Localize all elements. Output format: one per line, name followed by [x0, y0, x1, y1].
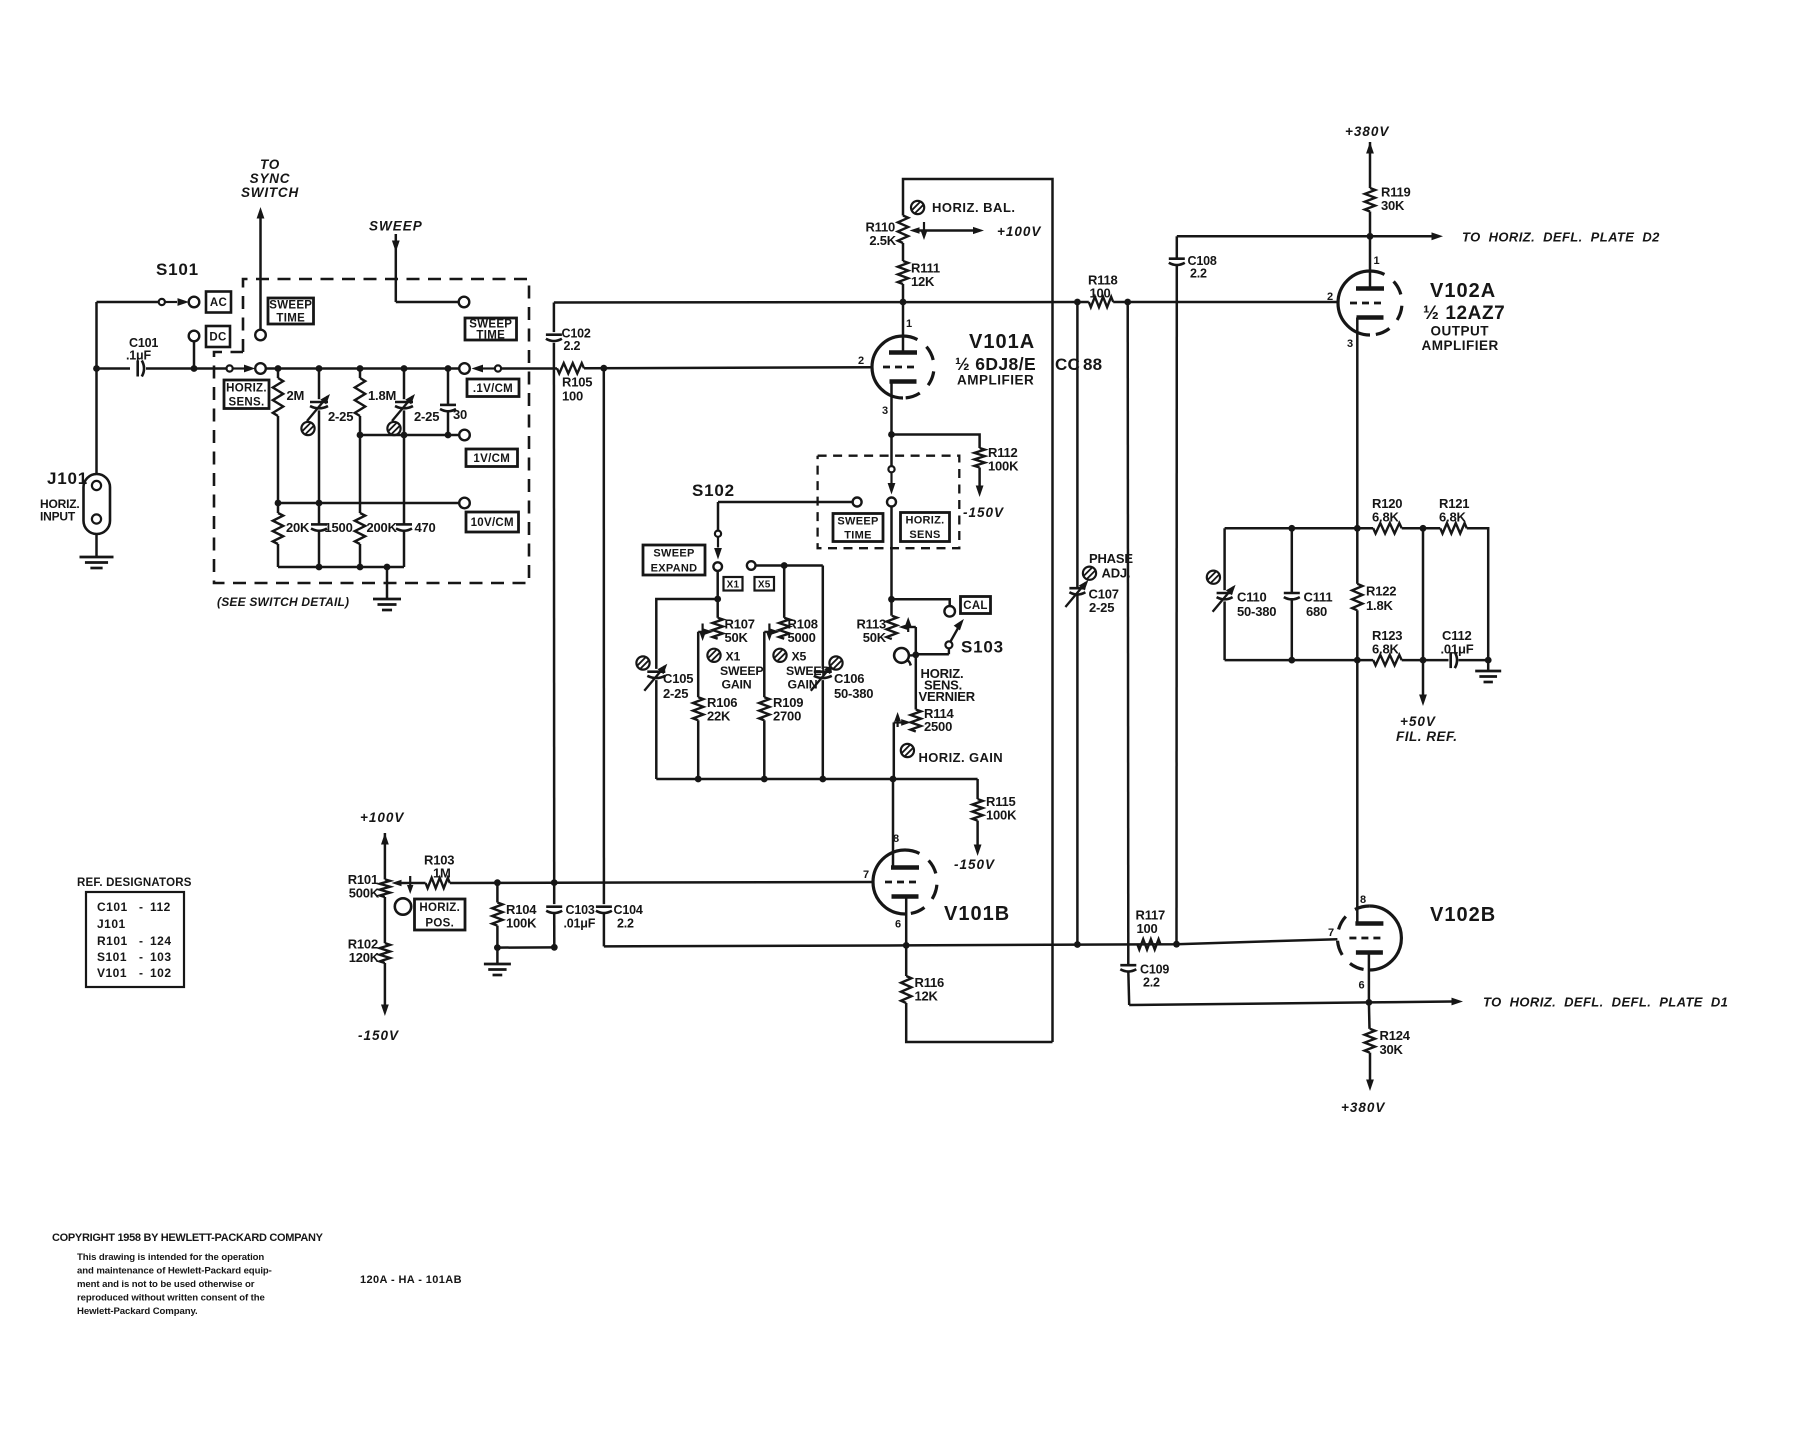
switch contact X5 [747, 561, 823, 570]
text copyright notice [52, 1232, 324, 1317]
wire V102A plate lead [1370, 236, 1380, 288]
svg-text:X5: X5 [792, 650, 807, 664]
potentiometer R110 2.5K [865, 216, 908, 249]
text drawing number [360, 1274, 462, 1286]
wire to R112 [892, 435, 980, 449]
svg-text:+100V: +100V [997, 224, 1041, 239]
wire X1 branch left [656, 599, 717, 669]
svg-text:100K: 100K [506, 916, 537, 931]
svg-text:S101: S101 [156, 260, 199, 279]
label X5 box [755, 577, 775, 591]
wire V101B cathode lead [903, 897, 910, 949]
svg-text:2M: 2M [287, 388, 305, 403]
wire +50V branch [1419, 528, 1427, 706]
label V102A function [1422, 324, 1499, 354]
svg-text:TO: TO [260, 157, 280, 172]
svg-text:C104: C104 [614, 903, 643, 917]
svg-text:SWITCH: SWITCH [241, 185, 299, 200]
adjust screw HORIZ. GAIN [901, 744, 1003, 765]
svg-text:8: 8 [1360, 894, 1366, 906]
wiper R107 [698, 624, 713, 698]
svg-text:HORIZ. BAL.: HORIZ. BAL. [932, 200, 1016, 215]
wire C112 to corner [1459, 657, 1492, 664]
feedback loop wire top [903, 179, 1053, 1042]
svg-text:R124: R124 [1380, 1028, 1411, 1043]
svg-text:120K: 120K [349, 950, 380, 965]
node TO HORIZ. DEFL. PLATE D2 [1177, 230, 1660, 245]
resistor R119 30K [1365, 185, 1411, 214]
label V101B [944, 903, 1010, 925]
adjust screw first trimmer [301, 422, 314, 435]
svg-text:.1V/CM: .1V/CM [473, 383, 513, 395]
svg-text:½ 6DJ8/E: ½ 6DJ8/E [955, 354, 1036, 374]
switch S102 middle wafer [887, 435, 896, 600]
svg-text:AMPLIFIER: AMPLIFIER [957, 373, 1034, 388]
wire network top right corner [1467, 528, 1488, 660]
svg-text:V102B: V102B [1430, 904, 1496, 926]
svg-text:SENS.: SENS. [228, 397, 264, 409]
wiper R113 [899, 617, 916, 654]
svg-text:CAL: CAL [963, 600, 988, 612]
svg-text:REF. DESIGNATORS: REF. DESIGNATORS [77, 877, 192, 889]
svg-text:2-25: 2-25 [1089, 600, 1114, 615]
svg-text:10V/CM: 10V/CM [471, 517, 514, 529]
svg-text:VERNIER: VERNIER [919, 689, 976, 704]
svg-text:SWEEP: SWEEP [269, 300, 312, 312]
wire network bottom left [1225, 657, 1374, 664]
svg-text:30K: 30K [1381, 198, 1405, 213]
tube V101B [863, 833, 937, 931]
svg-text:POS.: POS. [425, 917, 454, 929]
resistor 20K [273, 503, 310, 567]
adjust screw C106 [829, 656, 842, 669]
potentiometer R101 500K [348, 872, 390, 901]
resistor R104 100K [492, 883, 537, 951]
wire R119 to plate node [1367, 212, 1374, 240]
svg-text:470: 470 [415, 520, 436, 535]
svg-text:-150V: -150V [358, 1028, 399, 1043]
svg-text:124: 124 [150, 934, 172, 948]
label HORIZ. SENS box wafer [901, 513, 950, 542]
svg-text:3: 3 [882, 405, 888, 417]
wire V102B cathode lead [1366, 953, 1373, 1006]
node TO HORIZ. DEFL. DEFL. PLATE D1 [1129, 995, 1728, 1010]
resistor R117 100 [1136, 908, 1166, 950]
svg-text:8: 8 [893, 833, 899, 845]
svg-text:HORIZ.: HORIZ. [226, 382, 267, 394]
wiper R114 [894, 712, 911, 779]
svg-text:2.2: 2.2 [1143, 976, 1160, 990]
wire R101 to R102 [384, 897, 387, 943]
wire R115 to -150V [974, 821, 982, 856]
svg-text:-: - [139, 900, 143, 914]
svg-text:6.8K: 6.8K [1372, 510, 1399, 525]
adjust screw PHASE ADJ. [1083, 551, 1133, 581]
wire S102 label leg [717, 502, 720, 531]
svg-text:1M: 1M [433, 866, 451, 881]
svg-text:100: 100 [1137, 921, 1158, 936]
wire DC contact stem [191, 342, 198, 372]
wiper R110 to +100V [910, 222, 1042, 240]
label SWEEP TIME box right [465, 318, 517, 342]
switch S102 sweep-time contact left [255, 330, 266, 341]
label AC box [206, 292, 231, 313]
svg-text:C110: C110 [1237, 590, 1267, 605]
svg-text:1.8K: 1.8K [1366, 598, 1393, 613]
svg-text:HORIZ.: HORIZ. [419, 902, 460, 914]
trimmer capacitor C110 50-380 [1213, 585, 1277, 660]
svg-text:-150V: -150V [954, 857, 995, 872]
svg-text:2.2: 2.2 [564, 339, 581, 353]
svg-text:20K: 20K [286, 520, 310, 535]
wire V102B plate lead [1357, 660, 1366, 923]
svg-text:½ 12AZ7: ½ 12AZ7 [1423, 303, 1505, 324]
svg-text:ment and is not to be used oth: ment and is not to be used otherwise or [77, 1279, 255, 1290]
svg-text:-: - [139, 934, 143, 948]
svg-text:100K: 100K [988, 459, 1019, 474]
svg-text:C106: C106 [834, 671, 864, 686]
svg-text:TIME: TIME [276, 313, 305, 325]
table REF. DESIGNATORS [77, 877, 192, 987]
label X1 box [724, 577, 743, 591]
wire attenuator ground bus [278, 564, 404, 571]
label (SEE SWITCH DETAIL) [217, 595, 349, 609]
wire plate bus [554, 299, 1089, 306]
svg-text:INPUT: INPUT [40, 510, 76, 524]
adjust screw C105 [636, 656, 649, 669]
svg-text:2.2: 2.2 [617, 917, 634, 931]
svg-text:C105: C105 [663, 671, 693, 686]
wire +380V to R119 [1366, 142, 1374, 188]
svg-text:7: 7 [1328, 927, 1334, 939]
label SWEEP TIME box left [268, 298, 314, 325]
switch S103 arm [945, 619, 964, 654]
resistor R116 12K [901, 945, 944, 1003]
resistor 200K [355, 435, 398, 567]
svg-text:680: 680 [1306, 604, 1327, 619]
svg-text:-: - [139, 950, 143, 964]
switch S102 input wafer pole [227, 363, 266, 374]
svg-text:1.8M: 1.8M [368, 388, 396, 403]
node -150V below R112 [963, 505, 1004, 520]
svg-text:12K: 12K [911, 274, 935, 289]
wire network top left [1225, 525, 1374, 532]
label CAL box [961, 597, 991, 614]
capacitor C102 2.2 [546, 327, 591, 354]
knob HORIZ. POS. [395, 898, 411, 914]
svg-text:DC: DC [209, 332, 226, 344]
svg-text:.01μF: .01μF [564, 917, 596, 931]
adjust screw C110 [1207, 571, 1220, 584]
node -150V below R102 [358, 1028, 399, 1043]
svg-text:X5: X5 [758, 579, 771, 590]
wire C102 vertical top [553, 303, 556, 333]
resistor R105 100 [557, 363, 592, 403]
svg-text:5000: 5000 [788, 630, 816, 645]
wire R102 to -150V [381, 963, 389, 1016]
tube V102A [1327, 271, 1402, 350]
svg-text:1V/CM: 1V/CM [473, 453, 510, 465]
svg-text:C101: C101 [97, 900, 128, 914]
wire cathode bus [551, 939, 1338, 950]
svg-text:3: 3 [1347, 338, 1353, 350]
capacitor C101 .1uF [126, 336, 158, 377]
wire R115 branch [976, 779, 979, 799]
svg-text:102: 102 [150, 966, 172, 980]
svg-text:R105: R105 [562, 375, 592, 390]
svg-text:C103: C103 [566, 903, 595, 917]
label V102A type [1423, 303, 1505, 324]
svg-text:22K: 22K [707, 709, 731, 724]
switch contact 10V/CM [459, 498, 470, 509]
label DC box [206, 326, 230, 347]
wire sweep-time pole to R105 [501, 367, 557, 370]
wire sweep gain bottom bus [656, 776, 977, 783]
resistor R109 2700 [759, 695, 803, 779]
wire J101 to ground [95, 534, 98, 557]
resistor R121 6.8K [1439, 496, 1469, 534]
svg-text:.01μF: .01μF [1441, 642, 1474, 657]
ground attenuator [373, 599, 401, 610]
wire main input left [93, 365, 130, 372]
label V102B [1430, 904, 1496, 926]
svg-text:(SEE SWITCH DETAIL): (SEE SWITCH DETAIL) [217, 595, 349, 609]
wire R104 ground stem [496, 948, 499, 964]
svg-text:200K: 200K [367, 520, 398, 535]
wire R107 top [716, 599, 719, 618]
label S103 [961, 638, 1004, 657]
svg-text:100: 100 [1090, 286, 1111, 301]
svg-text:6.8K: 6.8K [1439, 510, 1466, 525]
resistor R111 12K [898, 261, 940, 290]
label V102A [1430, 280, 1496, 302]
wire R123 to C112 [1402, 657, 1449, 664]
label S102 [692, 481, 735, 500]
label V101A [969, 331, 1035, 353]
capacitor 30 [440, 369, 467, 436]
node +380V bottom [1341, 1100, 1385, 1115]
adjust screw X1 SWEEP GAIN [707, 649, 763, 692]
label 1V/CM box [466, 449, 518, 467]
svg-text:R101: R101 [97, 934, 128, 948]
switch S102 sweep-expand wafer [713, 531, 722, 603]
svg-text:SYNC: SYNC [250, 171, 291, 186]
svg-text:TO HORIZ. DEFL. DEFL. PLATE D1: TO HORIZ. DEFL. DEFL. PLATE D1 [1483, 995, 1728, 1010]
wire R120 to R121 [1402, 525, 1441, 532]
svg-text:SWEEP: SWEEP [720, 664, 763, 678]
adjust screw X5 SWEEP GAIN [773, 649, 829, 692]
label HORIZ. SENS. box [224, 380, 269, 409]
wire C107 vertical [1076, 302, 1079, 945]
wire to S101 AC arm [97, 301, 159, 304]
wire C108 vertical [1175, 236, 1178, 944]
svg-text:50K: 50K [725, 630, 749, 645]
jack J101 HORIZ. INPUT [40, 469, 110, 534]
potentiometer R107 50K [713, 617, 755, 646]
svg-text:+50V: +50V [1400, 714, 1436, 729]
wire C103 bottom [497, 912, 554, 947]
switch S102 sweep contact right [459, 297, 470, 308]
wiper R101 [392, 876, 426, 894]
ground below R104 [484, 964, 511, 975]
node SWEEP input [369, 219, 458, 303]
switch contact 1V/CM [459, 430, 470, 441]
svg-text:6.8K: 6.8K [1372, 642, 1399, 657]
label 10V/CM box [466, 512, 519, 532]
node +100V above R101 [360, 810, 404, 825]
switch S101 [156, 260, 199, 341]
resistor R123 6.8K [1372, 628, 1402, 665]
wire vernier node [909, 651, 949, 658]
resistor R120 6.8K [1372, 496, 1402, 534]
svg-text:2-25: 2-25 [663, 686, 688, 701]
wire +100V to R101 [381, 833, 389, 879]
svg-text:-150V: -150V [963, 505, 1004, 520]
svg-text:SWEEP: SWEEP [837, 515, 878, 527]
svg-text:1: 1 [906, 318, 912, 330]
svg-text:V101: V101 [97, 966, 127, 980]
wire R113 top node [888, 596, 895, 616]
wire R111 to bus [902, 284, 905, 302]
node attenuator top bus [266, 365, 459, 372]
potentiometer R113 50K [856, 616, 897, 645]
wire V101B plate lead [892, 779, 895, 868]
wire input vertical [95, 302, 98, 474]
resistor R124 30K [1365, 1002, 1411, 1057]
ground below J101 [80, 557, 114, 568]
label HORIZ. POS. box [415, 899, 466, 930]
svg-text:1: 1 [1374, 255, 1380, 267]
resistor R106 22K [693, 695, 737, 779]
label .1V/CM box [467, 379, 519, 397]
wire ground stem [386, 567, 389, 599]
svg-text:2: 2 [1327, 291, 1333, 303]
wire R105 to V101A grid [584, 365, 872, 372]
svg-text:500K: 500K [349, 886, 380, 901]
svg-text:C109: C109 [1140, 963, 1169, 977]
ground below C112 [1475, 660, 1501, 682]
tube V101A [858, 336, 934, 417]
svg-text:112: 112 [150, 900, 171, 914]
wire X5 branch [783, 566, 786, 618]
trimmer capacitor 2-25 second [392, 369, 439, 436]
wire V102A cathode lead [1354, 318, 1361, 532]
adjust screw second trimmer [387, 422, 400, 435]
svg-text:TO HORIZ. DEFL. PLATE D2: TO HORIZ. DEFL. PLATE D2 [1462, 230, 1660, 245]
wire C101 to wafer pole [146, 367, 227, 370]
svg-text:HORIZ. GAIN: HORIZ. GAIN [919, 750, 1004, 765]
svg-text:This drawing is intended for t: This drawing is intended for the operati… [77, 1252, 264, 1263]
wire R103 to V101B grid [450, 879, 873, 886]
svg-text:C111: C111 [1304, 590, 1333, 605]
svg-text:100: 100 [562, 389, 583, 404]
label SWEEP EXPAND box [643, 545, 705, 575]
wire C109 vertical [1128, 302, 1130, 1005]
node -150V below R115 [954, 857, 995, 872]
svg-text:V101A: V101A [969, 331, 1035, 353]
svg-text:2: 2 [858, 355, 864, 367]
capacitor C111 680 [1284, 528, 1333, 660]
capacitor 1500 [311, 503, 353, 567]
switch S102 wafer left contact [718, 498, 862, 507]
wire R118 to V102A grid [1113, 299, 1338, 306]
wire R124 to +380V [1366, 1053, 1374, 1091]
svg-text:PHASE: PHASE [1089, 551, 1133, 566]
svg-text:Hewlett-Packard Company.: Hewlett-Packard Company. [77, 1306, 198, 1317]
potentiometer R108 5000 [779, 617, 818, 646]
svg-text:ADJ.: ADJ. [1102, 566, 1131, 581]
wire R116 to loop bottom [906, 1003, 1052, 1042]
svg-text:S101: S101 [97, 950, 127, 964]
wire 10V/CM node [275, 500, 460, 507]
svg-text:V101B: V101B [944, 903, 1010, 925]
node TO SYNC SWITCH [241, 157, 299, 330]
potentiometer R114 2500 [911, 706, 955, 734]
trimmer capacitor 2-25 first [307, 369, 353, 504]
svg-text:100K: 100K [986, 808, 1017, 823]
wire R112 to -150V [976, 468, 984, 498]
svg-text:12K: 12K [915, 989, 939, 1004]
wire R114 top [915, 655, 918, 710]
resistor R115 100K [972, 794, 1017, 823]
svg-text:V102A: V102A [1430, 280, 1496, 302]
trimmer capacitor C105 2-25 [644, 664, 693, 779]
svg-text:2-25: 2-25 [414, 409, 439, 424]
capacitor C108 2.2 [1169, 254, 1217, 281]
svg-text:88: 88 [1083, 355, 1102, 374]
label SWEEP TIME box wafer [833, 514, 883, 542]
resistor R102 120K [348, 937, 390, 966]
svg-text:+380V: +380V [1345, 124, 1389, 139]
svg-text:-: - [139, 966, 143, 980]
resistor R122 1.8K [1352, 528, 1396, 660]
svg-text:and maintenance of Hewlett-Pac: and maintenance of Hewlett-Packard equip… [77, 1266, 272, 1277]
svg-text:1500: 1500 [325, 520, 353, 535]
capacitor 470 [396, 435, 436, 567]
svg-text:HORIZ.: HORIZ. [905, 515, 944, 527]
svg-text:GAIN: GAIN [722, 678, 752, 692]
wire C104 branch vertical [603, 368, 606, 904]
svg-text:SENS: SENS [909, 529, 940, 541]
wire C102 to C103 [553, 343, 556, 904]
capacitor C104 2.2 [596, 903, 643, 931]
svg-text:FIL. REF.: FIL. REF. [1396, 729, 1458, 744]
wire CAL branch [892, 599, 950, 606]
wiper R108 [764, 624, 780, 698]
resistor 1.8M [355, 369, 396, 436]
svg-text:EXPAND: EXPAND [651, 562, 698, 574]
svg-text:SWEEP: SWEEP [369, 219, 423, 234]
svg-text:2.2: 2.2 [1190, 267, 1207, 281]
svg-text:X1: X1 [726, 650, 741, 664]
adjust screw HORIZ. BAL. [911, 200, 1016, 215]
svg-text:OUTPUT: OUTPUT [1431, 324, 1490, 339]
svg-text:30K: 30K [1380, 1042, 1404, 1057]
switch S102 output contact .1V/CM [459, 363, 501, 374]
wire V101A plate lead [903, 302, 912, 353]
svg-text:50-380: 50-380 [1237, 604, 1276, 619]
svg-text:6: 6 [895, 919, 901, 931]
svg-text:J101: J101 [97, 917, 126, 931]
svg-text:SWEEP: SWEEP [653, 547, 694, 559]
svg-text:30: 30 [453, 407, 467, 422]
resistor R118 100 [1088, 273, 1118, 308]
wire R110 to R111 [902, 243, 905, 261]
svg-text:TIME: TIME [844, 529, 871, 541]
trimmer capacitor C107 2-25 [1065, 580, 1118, 615]
svg-text:2.5K: 2.5K [869, 233, 896, 248]
svg-text:S103: S103 [961, 638, 1004, 657]
